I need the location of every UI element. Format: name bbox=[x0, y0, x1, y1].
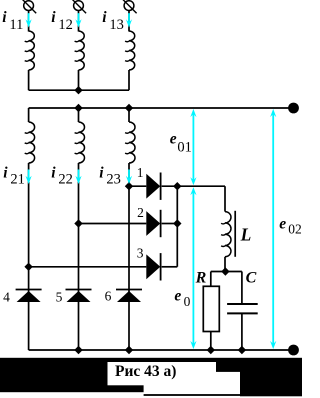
svg-text:11: 11 bbox=[9, 17, 23, 33]
svg-text:C: C bbox=[246, 269, 257, 286]
wire W13 to neutral bus bbox=[128, 70, 130, 90]
junction branch1 row3 bbox=[24, 263, 32, 271]
svg-text:21: 21 bbox=[10, 171, 25, 187]
svg-text:6: 6 bbox=[105, 289, 112, 304]
capacitor C bbox=[227, 303, 258, 305]
junction bottom bus branch2 bbox=[74, 346, 82, 354]
svg-text:5: 5 bbox=[56, 290, 63, 305]
wire secondary common bus bbox=[29, 107, 294, 109]
caption white box lower bbox=[144, 384, 216, 394]
wire branch3 vertical (through diode D6) bbox=[128, 163, 130, 350]
voltage arrow e0 bbox=[192, 191, 194, 345]
caption white text box bbox=[108, 362, 217, 385]
diode D5 bbox=[66, 289, 92, 291]
wire C to bottom bus bbox=[241, 313, 243, 350]
wire primary neutral bus bbox=[29, 89, 129, 91]
wire node to inductor L bbox=[224, 186, 226, 211]
current arrow i21 bbox=[28, 170, 30, 180]
wire R to bottom bus bbox=[210, 332, 212, 351]
wire D2 cathode to cathode bus bbox=[162, 223, 178, 225]
svg-text:i: i bbox=[102, 9, 107, 26]
current arrow i22 bbox=[78, 170, 80, 180]
inductor W13 (primary winding, current i13) bbox=[129, 31, 135, 70]
svg-text:e: e bbox=[170, 131, 177, 148]
wire bus2 to winding W22 bbox=[78, 108, 80, 122]
inductor W12 (primary winding, current i12) bbox=[79, 31, 85, 70]
junction L-RC node bbox=[221, 267, 229, 275]
svg-text:e: e bbox=[174, 287, 181, 304]
wire W11 to neutral bus bbox=[28, 70, 30, 90]
svg-text:4: 4 bbox=[3, 290, 10, 305]
svg-text:e: e bbox=[279, 216, 286, 233]
current arrow i23 bbox=[128, 170, 130, 180]
junction bus2 branch3 bbox=[125, 104, 133, 112]
svg-text:i: i bbox=[51, 9, 56, 26]
wire bus2 to winding W23 bbox=[128, 108, 130, 122]
wire L to RC node bbox=[224, 257, 226, 272]
diode D4 bbox=[16, 289, 42, 291]
svg-text:01: 01 bbox=[177, 140, 192, 156]
svg-text:13: 13 bbox=[109, 17, 124, 33]
svg-text:i: i bbox=[51, 164, 56, 181]
wire branch1 to diode D3 anode bbox=[29, 266, 147, 268]
voltage arrow e01 bbox=[192, 113, 194, 181]
svg-text:R: R bbox=[195, 270, 207, 287]
junction bottom bus R bbox=[207, 346, 215, 354]
resistor R bbox=[203, 286, 219, 331]
svg-text:Рис 43 а): Рис 43 а) bbox=[115, 363, 176, 380]
inductor L bbox=[225, 212, 231, 257]
svg-text:0: 0 bbox=[184, 294, 191, 309]
core line of inductor L bbox=[234, 211, 236, 257]
wire branch3 to diode D1 anode bbox=[129, 185, 146, 187]
terminal dot bottom right bbox=[288, 345, 299, 356]
caption band background bbox=[0, 358, 302, 392]
junction cathode bus row2 bbox=[173, 219, 181, 227]
wire terminal2 to winding W12 bbox=[78, 11, 80, 32]
caption white box right bbox=[216, 372, 240, 394]
diode D1 bbox=[146, 174, 160, 199]
svg-text:12: 12 bbox=[58, 17, 73, 33]
inductor W22 (secondary winding, current i22) bbox=[79, 122, 85, 163]
wire node to capacitor C bbox=[241, 272, 243, 304]
svg-text:3: 3 bbox=[137, 245, 144, 260]
svg-text:i: i bbox=[2, 9, 7, 26]
current arrow i11 bbox=[28, 13, 30, 22]
svg-text:L: L bbox=[240, 224, 252, 244]
wire RC top row bbox=[211, 271, 242, 273]
terminal dot top right bbox=[288, 103, 299, 114]
svg-text:23: 23 bbox=[106, 171, 121, 187]
svg-text:2: 2 bbox=[137, 205, 144, 220]
wire branch1 vertical (through diode D4) bbox=[28, 163, 30, 350]
terminal T1 (circle with slash) bbox=[24, 1, 34, 11]
current arrow i13 bbox=[128, 13, 130, 22]
wire terminal1 to winding W11 bbox=[28, 11, 30, 32]
diode D2 bbox=[146, 211, 160, 236]
wire terminal3 to winding W13 bbox=[128, 11, 130, 32]
wire W12 to neutral bus bbox=[78, 70, 80, 90]
junction cathode bus row1 bbox=[173, 182, 181, 190]
junction primary neutral bbox=[74, 86, 82, 94]
terminal T2 (circle with slash) bbox=[74, 1, 84, 11]
wire node to resistor R bbox=[210, 272, 212, 287]
terminal T3 (circle with slash) bbox=[124, 1, 134, 11]
svg-text:i: i bbox=[3, 164, 8, 181]
wire bus2 to winding W21 bbox=[28, 108, 30, 122]
wire bottom bus bbox=[29, 349, 294, 351]
wire branch2 vertical (through diode D5) bbox=[78, 163, 80, 350]
junction bottom bus C bbox=[238, 346, 246, 354]
wire D1 cathode to node and L bbox=[162, 185, 225, 187]
current arrow i12 bbox=[78, 13, 80, 22]
svg-text:i: i bbox=[99, 164, 104, 181]
voltage arrow e02 bbox=[272, 113, 274, 345]
svg-text:1: 1 bbox=[137, 165, 144, 180]
inductor W21 (secondary winding, current i21) bbox=[29, 122, 35, 163]
svg-text:02: 02 bbox=[288, 222, 302, 237]
wire D3 cathode to cathode bus bbox=[162, 266, 178, 268]
diode D6 bbox=[116, 289, 142, 291]
junction branch3 row1 bbox=[125, 182, 133, 190]
junction branch2 row2 bbox=[74, 219, 82, 227]
wire branch2 to diode D2 anode bbox=[79, 223, 147, 225]
svg-text:22: 22 bbox=[58, 171, 73, 187]
inductor W23 (secondary winding, current i23) bbox=[129, 122, 135, 163]
wire cathode bus vertical bbox=[176, 186, 178, 267]
diode D3 bbox=[146, 254, 160, 279]
junction bus2 branch2 bbox=[74, 104, 82, 112]
junction bottom bus branch3 bbox=[125, 346, 133, 354]
inductor W11 (primary winding, current i11) bbox=[29, 31, 35, 70]
